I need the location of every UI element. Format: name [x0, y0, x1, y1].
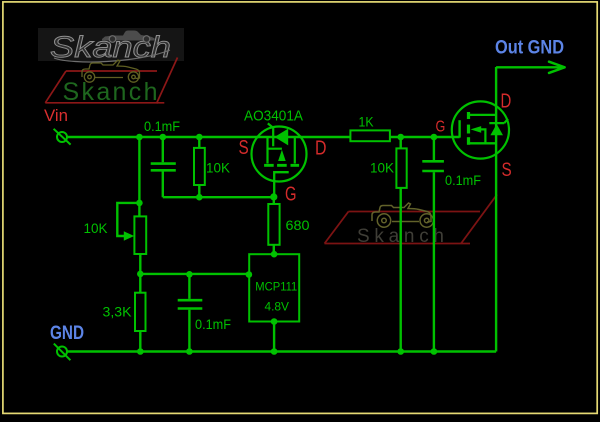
svg-text:10K: 10K	[84, 220, 109, 236]
watermark logo bottom: red parallelogram	[325, 195, 498, 244]
capacitor C3 0.1mF plates	[422, 161, 444, 171]
wire: mid rail to MCP111	[140, 273, 249, 275]
wire: R2 10K leads	[198, 137, 200, 197]
svg-text:10K: 10K	[370, 160, 395, 176]
wire: vertical from node A down to pot	[138, 137, 140, 216]
svg-text:G: G	[436, 119, 446, 136]
svg-text:D: D	[315, 138, 327, 160]
svg-text:680: 680	[286, 217, 310, 233]
capacitor C2 0.1mF plates	[178, 300, 203, 308]
transistor Q1 gate electrode and lead	[274, 172, 289, 197]
node gnd 3.3K	[137, 348, 144, 355]
transistor Q2 circle	[452, 101, 509, 158]
resistor R3 680	[268, 204, 279, 245]
node MCP bottom pin	[271, 318, 278, 325]
transistor Q1 channel pads	[264, 164, 299, 167]
svg-text:Out GND: Out GND	[495, 38, 564, 59]
wire: GND rail	[67, 350, 496, 352]
node pot wiper	[136, 200, 143, 207]
node gnd MCP	[271, 348, 278, 355]
wire: cap C2 leads	[188, 274, 190, 351]
resistor R5 1K	[350, 130, 390, 141]
svg-text:S: S	[239, 137, 249, 159]
node MCP left pin	[246, 271, 253, 278]
node MCP top pin	[271, 251, 278, 258]
resistor R4 10K	[396, 148, 406, 188]
transistor Q2 gate bar	[458, 120, 460, 137]
transistor Q1 drain tap	[294, 138, 296, 164]
svg-text:0.1mF: 0.1mF	[195, 316, 231, 332]
svg-text:3,3K: 3,3K	[103, 304, 133, 320]
wire: MCP111 bottom lead	[273, 322, 275, 352]
watermark logo top: red parallelogram	[45, 58, 177, 104]
wire: Out GND arrow shaft	[496, 66, 563, 68]
wire: pot bottom lead	[139, 254, 141, 274]
watermark logo top: khaki car outline	[82, 60, 140, 82]
wire: sub rail under C1 to gate node	[163, 196, 274, 198]
svg-text:Skanch: Skanch	[63, 78, 158, 106]
node A top rail x139	[136, 134, 143, 141]
node C3 top	[431, 134, 438, 141]
svg-text:AO3401A: AO3401A	[244, 109, 303, 125]
watermark logo bottom: khaki car outline	[372, 203, 433, 227]
transistor Q2 drain tap	[470, 114, 496, 116]
node gate G1	[270, 193, 277, 200]
resistor R2 10K	[194, 148, 205, 185]
potentiometer P1 wiper arrow	[124, 231, 134, 240]
wire: 3.3K leads	[139, 274, 141, 352]
transistor Q1 substrate arrow	[278, 150, 286, 161]
watermark script panel	[38, 28, 184, 64]
svg-text:S: S	[502, 160, 512, 181]
svg-text:0.1mF: 0.1mF	[144, 118, 180, 134]
svg-text:4.8V: 4.8V	[265, 301, 290, 313]
wire: 680 leads	[273, 197, 275, 254]
arrowhead Out GND	[549, 62, 565, 73]
wire: cap C1 leads	[162, 137, 164, 197]
transistor Q2 substrate arrow	[471, 126, 486, 143]
transistor Q1 AO3401A circle	[252, 127, 307, 182]
node gnd C3	[431, 348, 438, 355]
transistor Q1 source tap	[266, 138, 282, 164]
node R4 top	[397, 134, 404, 141]
node R2 bottom	[196, 194, 203, 201]
wire: right vertical Out GND	[495, 67, 497, 352]
wire: Vin rail to 1K	[67, 136, 351, 138]
wire: pot wiper bracket	[117, 203, 139, 236]
svg-text:10K: 10K	[206, 160, 231, 176]
transistor Q1 body diode	[268, 123, 288, 146]
node C2 top	[186, 271, 193, 278]
wire: cap C3 leads	[433, 137, 435, 352]
svg-text:GND: GND	[50, 323, 84, 344]
terminal GND	[54, 344, 71, 361]
node gnd C2	[186, 348, 193, 355]
svg-text:G: G	[285, 184, 297, 206]
svg-text:MCP111: MCP111	[255, 282, 297, 294]
IC U2 MCP111 box	[249, 254, 299, 321]
node R2 top	[196, 134, 203, 141]
transistor Q2 source tap	[470, 142, 496, 144]
svg-text:D: D	[501, 91, 512, 113]
wire: 1K to right mosfet gate	[390, 136, 460, 138]
wire: R4 10K leads	[400, 137, 402, 352]
terminal Vin	[54, 129, 71, 145]
node C1 top	[160, 134, 167, 141]
watermark gray car silhouette	[102, 31, 155, 43]
svg-text:Vin: Vin	[44, 106, 68, 125]
transistor Q2 body diode	[489, 119, 508, 135]
svg-text:0.1mF: 0.1mF	[445, 172, 481, 188]
resistor R6 3.3K	[135, 293, 146, 331]
node pot bottom mid rail	[137, 271, 144, 278]
transistor Q2 channel pads	[467, 112, 470, 145]
capacitor C1 0.1mF plates	[151, 164, 176, 171]
svg-text:1K: 1K	[359, 114, 375, 130]
potentiometer P1 10K body	[134, 216, 146, 254]
node gnd R4	[397, 348, 404, 355]
